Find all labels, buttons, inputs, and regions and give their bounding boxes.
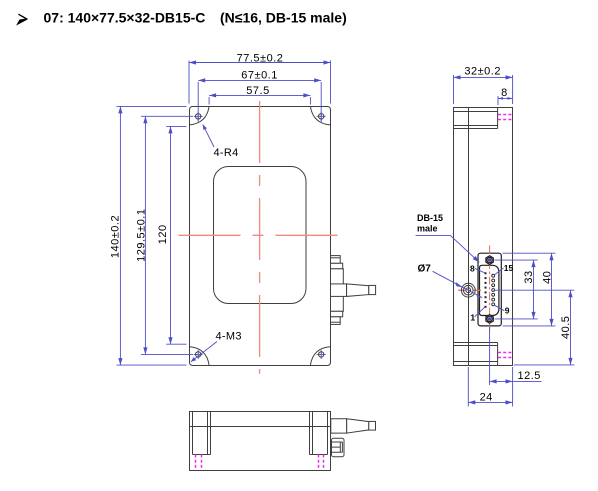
bottom view boot taper	[347, 419, 369, 433]
dim 8 line	[498, 97, 513, 99]
screw hole bottom-left	[194, 350, 203, 359]
svg-text:8: 8	[470, 263, 475, 273]
svg-text:129.5±0.1: 129.5±0.1	[136, 209, 148, 262]
connector profile tab top	[331, 256, 341, 264]
connector profile tab bottom inner line	[331, 321, 341, 323]
svg-text:Ø7: Ø7	[418, 264, 432, 275]
svg-text:33: 33	[523, 270, 535, 283]
dim 77.5±0.2 line	[189, 62, 331, 64]
svg-text:1: 1	[470, 313, 475, 323]
pin 1 leader	[475, 307, 485, 317]
connector red centerline horizontal	[458, 289, 481, 291]
dim 140±0.2 line	[119, 106, 121, 365]
dim 24 extension line	[467, 367, 469, 407]
svg-text:(N≤16, DB-15 male): (N≤16, DB-15 male)	[220, 9, 347, 25]
connector side profile on front view: flange	[331, 269, 344, 312]
connector profile tab bottom	[331, 317, 341, 325]
connector profile tier bottom	[331, 311, 343, 317]
svg-text:140±0.2: 140±0.2	[110, 215, 122, 258]
side view top ear lines	[454, 108, 498, 129]
svg-text:40: 40	[542, 271, 554, 284]
leader DB-15 male	[416, 236, 480, 263]
svg-text:07: 140×77.5×32-DB15-C: 07: 140×77.5×32-DB15-C	[44, 9, 206, 25]
corner ear arc bottom-right	[310, 347, 330, 366]
dim 120 extension lines	[166, 126, 186, 344]
dim 40 extension lines	[503, 253, 556, 326]
cable boot taper on front view	[347, 284, 369, 297]
svg-text:67±0.1: 67±0.1	[241, 70, 278, 82]
corner ear arc top-right	[310, 106, 330, 125]
connector red centerline vertical	[489, 246, 491, 333]
dim 40.5 extension lines	[494, 290, 575, 365]
bottom view boot	[331, 419, 347, 433]
dim 129.5±0.1 line	[144, 116, 146, 354]
connector profile tab top inner line	[331, 257, 341, 259]
connector profile tier top	[331, 263, 343, 269]
bottom view right thread magenta	[319, 455, 324, 471]
hex nut top	[486, 256, 493, 265]
svg-text:15: 15	[504, 263, 514, 273]
svg-text:120: 120	[157, 224, 169, 244]
svg-text:8: 8	[501, 87, 508, 99]
side view outer box	[454, 108, 513, 366]
svg-text:40.5: 40.5	[560, 316, 572, 339]
bottom view left thread magenta	[196, 455, 202, 471]
red centerline vertical front view	[259, 101, 261, 374]
hex nut bottom	[486, 315, 493, 324]
dim 140±0.2 extension lines	[117, 106, 187, 365]
svg-text:4-R4: 4-R4	[214, 147, 239, 159]
dim 40 line	[551, 253, 553, 326]
svg-text:32±0.2: 32±0.2	[464, 66, 501, 78]
pins right column (9-15)	[492, 274, 495, 306]
svg-text:9: 9	[505, 306, 510, 316]
pin 8 leader	[475, 268, 485, 273]
svg-text:4-M3: 4-M3	[216, 331, 242, 343]
dim 12.5 extension lines	[490, 327, 513, 407]
leader 4-M3	[191, 342, 217, 362]
dim 32±0.2 extension lines	[454, 75, 513, 104]
pin 15 leader	[494, 268, 504, 275]
leader Ø7	[433, 271, 483, 297]
dim 24 line	[468, 401, 512, 403]
dim 67±0.1 line	[198, 79, 321, 81]
dim 57.5 line	[209, 94, 310, 96]
svg-text:12.5: 12.5	[518, 370, 541, 382]
dim 32±0.2 line	[454, 76, 513, 78]
title bullet arrow	[17, 14, 27, 24]
front view outer box	[190, 107, 331, 366]
cable boot base on front view	[331, 284, 347, 297]
front view inner lid recess	[214, 167, 307, 304]
dim 33 line	[533, 260, 535, 319]
grommet hole Ø7 red centerline	[458, 289, 481, 291]
red centerline horizontal front view	[179, 234, 339, 236]
dim 12.5 line	[490, 380, 513, 382]
pin 9 leader	[494, 305, 505, 311]
bottom view right ear lines	[310, 412, 328, 455]
thread hole bottom magenta	[498, 353, 513, 358]
svg-text:DB-15: DB-15	[417, 213, 443, 223]
dim 33 extension lines	[495, 260, 538, 319]
screw hole top-right	[317, 112, 326, 121]
dim 12.5 tail	[513, 380, 542, 382]
dim 40.5 line	[570, 290, 572, 365]
bottom view dsub end-on outer	[332, 438, 345, 456]
bottom view left ear lines	[193, 412, 211, 455]
dim 67±0.1 extension lines	[198, 82, 321, 122]
dim 77.5±0.2 extension lines	[189, 61, 331, 104]
DB-15 connector body	[478, 253, 501, 326]
corner ear arc bottom-left	[189, 347, 209, 366]
bottom view lid seam	[190, 426, 331, 428]
dim 57.5 extension lines	[209, 97, 310, 105]
DB-15 shell D-shape	[480, 265, 499, 315]
bottom view dsub inner lines	[332, 442, 343, 452]
leader 4-R4	[203, 125, 214, 148]
svg-text:77.5±0.2: 77.5±0.2	[237, 52, 284, 64]
bottom view outer box	[190, 412, 331, 471]
screw hole bottom-right	[317, 350, 326, 359]
svg-text:male: male	[417, 224, 438, 234]
side view bottom ear lines	[454, 343, 498, 366]
dim 129.5±0.1 extension lines	[141, 116, 193, 354]
dim 120 line	[170, 126, 172, 344]
grommet hole Ø7 circles	[461, 283, 475, 297]
corner ear arc top-left	[189, 106, 209, 125]
pins left column (1-8)	[485, 272, 487, 308]
svg-text:24: 24	[480, 392, 493, 404]
screw hole top-left	[194, 112, 203, 121]
dim 8 extension line	[497, 96, 499, 105]
thread hole top magenta	[498, 115, 513, 120]
bottom view boot cap	[369, 421, 376, 430]
svg-text:57.5: 57.5	[246, 85, 269, 97]
side view lid seam vertical	[468, 108, 470, 366]
cable boot end cap on front view	[369, 285, 376, 294]
